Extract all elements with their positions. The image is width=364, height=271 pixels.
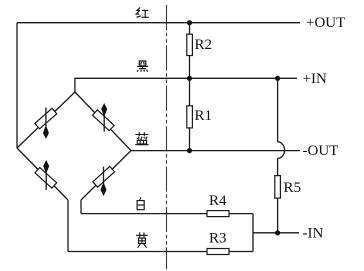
wire white horizontal: [81, 213, 207, 215]
svg-text:R2: R2: [195, 37, 213, 53]
svg-text:+IN: +IN: [303, 71, 327, 87]
centerline (vertical chain line): [166, 5, 168, 269]
bridge arm bottom-right: [81, 151, 131, 200]
strain gauge G3 (lower-left arm): [35, 160, 57, 190]
wire bottom-right vertex drop to white: [80, 200, 82, 214]
bridge arm top-left: [17, 92, 75, 148]
resistor R2: [187, 23, 212, 79]
strain gauge G1 (upper-left arm): [35, 108, 57, 140]
svg-text:R3: R3: [209, 231, 227, 247]
label 白 (white): [137, 197, 144, 209]
wire black horizontal: [75, 78, 297, 92]
resistor R1: [187, 78, 212, 150]
junction dot at +OUT/R2: [187, 20, 192, 25]
resistor R5: [275, 176, 301, 233]
wire right vertical joining white and yellow: [252, 214, 254, 252]
resistor R4: [207, 193, 229, 217]
bridge arm bottom-left: [17, 148, 68, 200]
strain gauge G2 (upper-right arm): [93, 103, 115, 132]
label 黑 (black): [137, 61, 148, 72]
junction dot at +IN/R1: [187, 76, 192, 81]
bridge arm top-right: [75, 92, 131, 151]
svg-text:-OUT: -OUT: [303, 143, 339, 159]
wire bottom-left vertex drop to yellow: [67, 200, 69, 252]
svg-text:R1: R1: [195, 108, 213, 124]
wire -IN horizontal: [253, 232, 299, 234]
label 黄 (yellow): [136, 232, 148, 247]
junction dot at +IN branch: [275, 76, 280, 81]
wire yellow horizontal: [68, 251, 207, 253]
wire hop over -OUT line: [278, 142, 285, 159]
wire left vertical (red to bridge left vertex): [16, 23, 18, 148]
label 红 (red): [136, 7, 149, 17]
svg-text:R5: R5: [284, 180, 302, 196]
wire +IN branch vertical: [277, 78, 279, 142]
junction dot at -IN/R5: [275, 230, 280, 235]
junction dot at -OUT/R1: [187, 148, 192, 153]
svg-text:R4: R4: [209, 193, 227, 209]
wire red top horizontal: [17, 22, 300, 24]
resistor R3: [207, 231, 229, 255]
svg-text:-IN: -IN: [303, 226, 324, 242]
strain gauge G4 (lower-right arm): [93, 166, 115, 196]
wire blue horizontal: [131, 150, 300, 152]
svg-text:+OUT: +OUT: [306, 15, 345, 31]
label 蓝 (blue): [135, 132, 148, 145]
